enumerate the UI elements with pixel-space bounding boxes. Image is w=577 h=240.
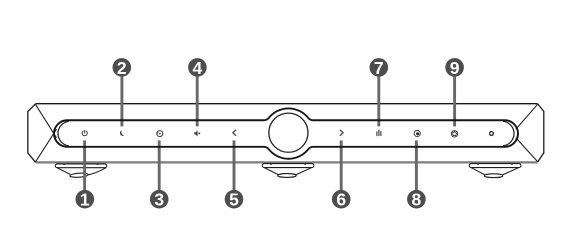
svg-text:8: 8 xyxy=(412,190,422,210)
svg-text:6: 6 xyxy=(336,190,346,210)
svg-text:9: 9 xyxy=(450,58,460,78)
front pill face with knob bulge xyxy=(54,108,518,158)
svg-text:1: 1 xyxy=(80,190,90,210)
right cap inner highlight arc xyxy=(503,121,514,146)
callout 2 xyxy=(113,58,132,78)
callout stem 9 xyxy=(453,77,456,127)
svg-text:3: 3 xyxy=(154,190,164,210)
device body top face and chamfered ends xyxy=(28,104,544,163)
callout stem 3 xyxy=(158,140,161,190)
icon settings xyxy=(451,131,457,137)
icon mute speaker xyxy=(194,130,200,136)
callout 3 xyxy=(150,190,169,210)
indicator dot xyxy=(490,132,494,136)
svg-text:4: 4 xyxy=(193,58,203,78)
callout stem 2 xyxy=(120,77,123,127)
right foot xyxy=(469,163,521,177)
callout 5 xyxy=(225,190,244,210)
svg-text:2: 2 xyxy=(117,58,127,78)
callout stem 6 xyxy=(340,140,343,190)
callout stem 4 xyxy=(196,77,199,127)
svg-text:5: 5 xyxy=(229,190,239,210)
icon volume down chevron xyxy=(233,130,236,135)
callout 9 xyxy=(445,58,464,78)
icon input select xyxy=(156,131,162,137)
left end diagonal lines xyxy=(36,104,57,161)
knob inner circle xyxy=(269,113,308,152)
left foot xyxy=(55,164,106,178)
callout stem 7 xyxy=(377,77,380,127)
right end diagonal lines xyxy=(516,104,538,162)
callout stem 8 xyxy=(415,140,418,190)
callout 7 xyxy=(370,58,389,78)
callout 4 xyxy=(188,58,207,78)
left cap inner highlight arc xyxy=(58,121,69,146)
icon sound bars xyxy=(377,130,381,135)
icon handset xyxy=(120,130,124,136)
right chamfer outline xyxy=(538,104,544,162)
icon power xyxy=(82,130,87,135)
left chamfer outline xyxy=(28,104,36,162)
icon volume up chevron xyxy=(340,130,343,135)
callout 1 xyxy=(76,190,95,210)
callout stem 5 xyxy=(233,140,236,190)
icon record circle xyxy=(414,130,420,136)
bottom edge (gray) xyxy=(36,161,538,163)
callout stem 1 xyxy=(83,140,86,190)
callout 6 xyxy=(332,190,351,210)
center foot xyxy=(262,163,314,177)
top edge xyxy=(36,103,538,105)
svg-text:7: 7 xyxy=(374,58,384,78)
callout 8 xyxy=(407,190,426,210)
